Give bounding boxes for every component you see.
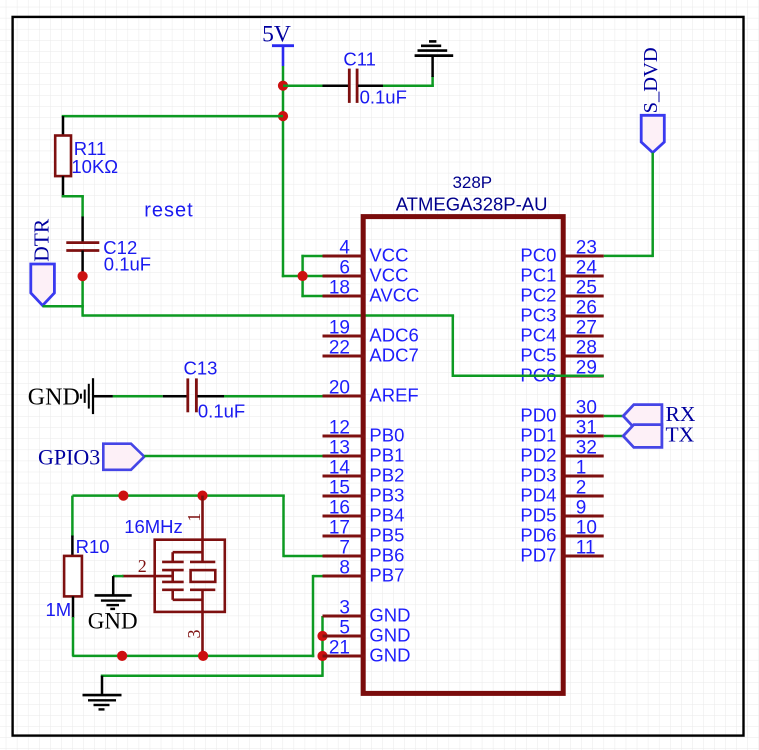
- pin 16 PB4 (left): [323, 498, 405, 526]
- junction 5V/C11: [278, 81, 288, 91]
- svg-text:PC0: PC0: [520, 245, 556, 266]
- svg-text:17: 17: [329, 518, 350, 539]
- junction top rail: [118, 491, 128, 501]
- svg-text:PB6: PB6: [369, 545, 404, 566]
- svg-text:GND: GND: [369, 605, 410, 626]
- port S_DVD: [640, 47, 665, 152]
- svg-text:PC3: PC3: [520, 305, 556, 326]
- svg-text:24: 24: [576, 258, 598, 279]
- port DTR: [30, 218, 55, 305]
- wire to PB6 pin 7: [284, 555, 323, 558]
- junction 5V/R11: [278, 111, 288, 121]
- port GPIO3: [38, 444, 144, 470]
- svg-text:PD2: PD2: [520, 445, 556, 466]
- wire R10 to bottom rail: [72, 617, 75, 656]
- svg-text:6: 6: [339, 258, 350, 279]
- svg-text:5V: 5V: [262, 22, 291, 48]
- svg-text:328P: 328P: [452, 173, 492, 192]
- ground (earth) bottom left: [83, 695, 122, 709]
- wire reset vertical: [452, 316, 455, 378]
- wire ground stem green: [431, 76, 434, 87]
- svg-text:1: 1: [576, 458, 587, 479]
- svg-text:1: 1: [184, 513, 204, 522]
- svg-text:27: 27: [576, 318, 597, 339]
- svg-text:32: 32: [576, 438, 597, 459]
- svg-text:0.1uF: 0.1uF: [360, 86, 407, 107]
- svg-text:30: 30: [576, 398, 597, 419]
- svg-text:PB7: PB7: [369, 565, 404, 586]
- svg-text:PB1: PB1: [369, 445, 404, 466]
- wire 5V to C11: [283, 84, 323, 87]
- wire R10 bottom lead: [72, 596, 75, 618]
- svg-text:10KΩ: 10KΩ: [71, 156, 118, 177]
- svg-text:PD1: PD1: [520, 425, 556, 446]
- wire PD1 to TX: [604, 435, 625, 438]
- ground (earth, inverted) top right: [415, 41, 454, 55]
- pin 5 GND (left): [323, 618, 411, 646]
- wire DTR to reset net: [43, 305, 84, 308]
- pin 10 PD6 (right): [520, 518, 603, 546]
- pin 30 PD0 (right): [520, 398, 603, 426]
- svg-text:12: 12: [329, 418, 350, 439]
- svg-text:8: 8: [339, 558, 350, 579]
- svg-text:AVCC: AVCC: [369, 285, 419, 306]
- junction XTAL pin3: [198, 651, 208, 661]
- wire GND pins vertical: [321, 616, 324, 677]
- wire pin2 ground stem: [112, 576, 115, 595]
- svg-text:AREF: AREF: [369, 385, 418, 406]
- svg-text:19: 19: [329, 318, 350, 339]
- svg-text:VCC: VCC: [369, 245, 408, 266]
- svg-text:22: 22: [329, 338, 350, 359]
- wire crystal pin2 stub: [113, 575, 124, 578]
- pin 21 GND (left): [323, 638, 411, 666]
- svg-text:PC5: PC5: [520, 345, 556, 366]
- svg-text:PD4: PD4: [520, 485, 556, 506]
- svg-text:14: 14: [329, 458, 351, 479]
- pin 25 PC2 (right): [520, 278, 603, 306]
- svg-text:3: 3: [339, 598, 350, 619]
- pin 14 PB2 (left): [323, 458, 405, 486]
- wire to VCC pin 4: [301, 255, 322, 258]
- svg-text:18: 18: [329, 278, 350, 299]
- svg-text:TX: TX: [666, 422, 695, 446]
- wire R11 top lead: [62, 116, 65, 135]
- wire reset over PC6 stub: [453, 375, 604, 378]
- wire to VCC pin 6: [282, 275, 323, 278]
- svg-text:0.1uF: 0.1uF: [198, 401, 245, 422]
- pin 6 VCC (left): [323, 258, 409, 286]
- svg-text:2: 2: [576, 478, 587, 499]
- wire crystal top rail: [72, 494, 284, 497]
- wire C13 to AREF pin 20: [224, 395, 323, 398]
- pin 13 PB1 (left): [323, 438, 405, 466]
- svg-text:31: 31: [576, 418, 597, 439]
- wire C12 bottom lead: [81, 251, 84, 277]
- pin 1 PD3 (right): [520, 458, 603, 486]
- svg-text:PD0: PD0: [520, 405, 556, 426]
- svg-text:2: 2: [138, 556, 147, 576]
- svg-text:21: 21: [329, 638, 350, 659]
- svg-text:S_DVD: S_DVD: [640, 47, 662, 113]
- wire reset horizontal: [83, 314, 455, 317]
- pin 3 GND (left): [323, 598, 411, 626]
- svg-text:0.1uF: 0.1uF: [104, 253, 151, 274]
- svg-text:DTR: DTR: [30, 218, 54, 262]
- wire VCC branch vertical: [301, 255, 304, 297]
- resistor R11: [55, 136, 118, 177]
- svg-text:GPIO3: GPIO3: [38, 444, 100, 469]
- wire PD0 to RX: [604, 415, 625, 418]
- pin 19 ADC6 (left): [323, 318, 419, 346]
- wire GPIO3 to PB1 pin 13: [144, 455, 322, 458]
- pin 29 PC6 (right): [520, 358, 603, 386]
- pin 7 PB6 (left): [323, 538, 405, 566]
- wire S_DVD vertical: [651, 153, 654, 258]
- capacitor C13: [184, 358, 246, 422]
- pin 9 PD5 (right): [520, 498, 603, 526]
- wire to AVCC pin 18: [301, 295, 322, 298]
- wire ground stem black: [431, 55, 434, 77]
- svg-text:PD5: PD5: [520, 505, 556, 526]
- svg-text:16: 16: [329, 498, 350, 519]
- svg-text:23: 23: [576, 238, 597, 259]
- svg-text:1M: 1M: [46, 599, 72, 620]
- pin 22 ADC7 (left): [323, 338, 419, 366]
- wire 5V rail vertical: [282, 66, 285, 277]
- junction GND pin 21: [317, 651, 327, 661]
- pin 8 PB7 (left): [323, 558, 405, 586]
- svg-text:C11: C11: [343, 48, 376, 69]
- crystal Y1 16MHz (3-pin resonator): [122, 496, 225, 657]
- svg-text:PD3: PD3: [520, 465, 556, 486]
- wire rail to PB6: [282, 496, 285, 558]
- wire R11 bottom lead: [62, 176, 65, 197]
- capacitor C12: [66, 237, 151, 274]
- svg-text:GND: GND: [369, 625, 410, 646]
- wire 5V to R11: [62, 115, 283, 118]
- wire to PB7 pin 8: [313, 575, 323, 578]
- wire C12 to reset: [81, 276, 84, 317]
- svg-text:13: 13: [329, 438, 350, 459]
- wire GND lead: [93, 395, 113, 398]
- wire C11 left lead: [323, 84, 349, 87]
- junction VCC branch: [298, 271, 308, 281]
- wire C13 right lead: [197, 395, 224, 398]
- svg-text:C13: C13: [184, 358, 218, 379]
- svg-text:4: 4: [339, 238, 350, 259]
- pin 2 PD4 (right): [520, 478, 603, 506]
- svg-text:28: 28: [576, 338, 597, 359]
- pin 18 AVCC (left): [323, 278, 420, 306]
- svg-text:20: 20: [329, 378, 350, 399]
- svg-text:VCC: VCC: [369, 265, 408, 286]
- junction XTAL pin1: [197, 491, 207, 501]
- svg-text:5: 5: [339, 618, 350, 639]
- pin 24 PC1 (right): [520, 258, 603, 286]
- svg-text:26: 26: [576, 298, 597, 319]
- IC U1 ATMEGA328P-AU: [323, 173, 604, 693]
- svg-text:ADC7: ADC7: [369, 345, 418, 366]
- pin 15 PB3 (left): [323, 478, 405, 506]
- junction bottom rail: [117, 651, 127, 661]
- svg-text:PB4: PB4: [369, 505, 404, 526]
- wire reset to PC6 pin 29: [453, 375, 604, 378]
- svg-text:R10: R10: [76, 536, 110, 557]
- wire GND to earth: [101, 674, 323, 677]
- pin 28 PC5 (right): [520, 338, 603, 366]
- pin 20 AREF (left): [323, 378, 419, 406]
- svg-text:PC1: PC1: [520, 265, 556, 286]
- junction C12/reset: [78, 271, 88, 281]
- wire GND to C13: [113, 395, 163, 398]
- resistor R10: [46, 536, 110, 620]
- svg-text:GND: GND: [28, 384, 80, 410]
- pin 23 PC0 (right): [520, 238, 603, 266]
- pin 27 PC4 (right): [520, 318, 603, 346]
- svg-text:PB3: PB3: [369, 485, 404, 506]
- svg-text:PB5: PB5: [369, 525, 404, 546]
- wire jog vertical: [81, 196, 84, 217]
- svg-text:PD7: PD7: [520, 545, 556, 566]
- svg-text:ADC6: ADC6: [369, 325, 418, 346]
- svg-text:9: 9: [576, 498, 587, 519]
- power port GND (AREF net): [28, 378, 93, 414]
- svg-text:GND: GND: [88, 609, 138, 634]
- pin 11 PD7 (right): [520, 538, 603, 566]
- pin 32 PD2 (right): [520, 438, 603, 466]
- wire jog horizontal: [62, 195, 84, 198]
- wire earth stem: [101, 676, 104, 695]
- svg-text:PC2: PC2: [520, 285, 556, 306]
- pin 26 PC3 (right): [520, 298, 603, 326]
- junction GND pin 5: [317, 631, 327, 641]
- wire C11 to ground: [383, 84, 434, 87]
- wire C12 top lead: [81, 217, 84, 243]
- power port 5V: [262, 22, 294, 66]
- svg-text:10: 10: [576, 518, 597, 539]
- svg-text:PB0: PB0: [369, 425, 404, 446]
- svg-text:25: 25: [576, 278, 597, 299]
- pin 12 PB0 (left): [323, 418, 405, 446]
- pin 17 PB5 (left): [323, 518, 405, 546]
- capacitor C11: [343, 48, 407, 107]
- wire crystal bottom rail: [72, 655, 314, 658]
- port TX: [623, 422, 694, 447]
- port RX: [623, 402, 696, 428]
- ground (earth) at crystal pin 2: [88, 595, 138, 633]
- svg-text:3: 3: [184, 630, 204, 639]
- svg-text:GND: GND: [369, 645, 410, 666]
- svg-text:reset: reset: [144, 199, 193, 221]
- svg-text:11: 11: [576, 538, 596, 559]
- svg-text:PD6: PD6: [520, 525, 556, 546]
- svg-text:15: 15: [329, 478, 350, 499]
- svg-text:PB2: PB2: [369, 465, 404, 486]
- svg-text:PC4: PC4: [520, 325, 556, 346]
- wire R10 top lead: [71, 536, 74, 557]
- wire rail to R10: [71, 496, 74, 537]
- pin 4 VCC (left): [323, 238, 409, 266]
- svg-text:16MHz: 16MHz: [124, 516, 183, 537]
- wire C13 left lead: [163, 395, 187, 398]
- wire S_DVD to PC0 pin 23: [604, 255, 653, 258]
- pin 31 PD1 (right): [520, 418, 603, 446]
- wire C11 right lead: [358, 84, 383, 87]
- svg-text:7: 7: [339, 538, 350, 559]
- wire rail to PB7: [312, 575, 315, 657]
- svg-text:ATMEGA328P-AU: ATMEGA328P-AU: [396, 194, 548, 215]
